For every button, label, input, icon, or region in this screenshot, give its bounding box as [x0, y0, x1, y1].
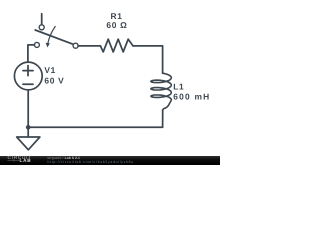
svg-text:V1: V1 [44, 65, 56, 75]
svg-text:600 mH: 600 mH [173, 92, 210, 102]
ground symbol [17, 137, 40, 150]
V1 plus sign [23, 70, 33, 72]
ground stub [27, 127, 29, 137]
svg-text:L1: L1 [173, 81, 184, 91]
footer text line 1 [48, 156, 81, 160]
switch SW1 top throw terminal [39, 25, 44, 30]
bottom wire (net to ground) [28, 126, 162, 128]
switch SW1 left throw terminal [34, 42, 39, 47]
footer black bar [0, 156, 220, 165]
switch SW1 right common terminal [73, 43, 78, 48]
wire V1 bottom to junction [27, 90, 29, 127]
resistor R1 [100, 39, 133, 52]
inductor L1 coil [151, 73, 171, 110]
footer text line 2 [48, 160, 134, 164]
wire R1 to inductor top (corner) [133, 46, 163, 73]
junction node dot [26, 125, 31, 130]
wire switch left throw to V1 top [28, 45, 35, 62]
wire stub to switch top throw [41, 14, 43, 25]
switch SW1 blade [35, 30, 73, 44]
CircuitLab logo [8, 156, 32, 163]
voltage source V1 circle [14, 62, 42, 90]
svg-text:60 Ω: 60 Ω [106, 20, 127, 30]
switch SW1 actuation arrow [48, 27, 56, 45]
V1 minus sign [23, 83, 33, 85]
svg-text:60 V: 60 V [44, 76, 64, 86]
wire switch common to R1 [78, 45, 100, 47]
wire L1 bottom [162, 110, 164, 127]
